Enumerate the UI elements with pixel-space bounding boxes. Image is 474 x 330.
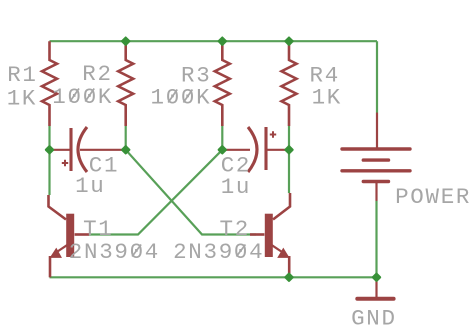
svg-text:1u: 1u [75, 173, 105, 199]
wire: R1 bottom to C1 left node [48, 126, 50, 150]
junction at battery/GND on ground rail [373, 274, 380, 281]
wire: battery top vertical [376, 41, 378, 113]
junction at C2 right node [285, 146, 292, 153]
svg-text:1u: 1u [221, 174, 251, 200]
junction at R3 top [219, 38, 226, 45]
svg-text:2N3904: 2N3904 [173, 239, 264, 265]
svg-text:POWER: POWER [395, 184, 471, 210]
svg-text:GND: GND [351, 305, 397, 330]
slashed-zero strokes for 100K of R3 [168, 90, 192, 103]
resistor R4 [282, 41, 297, 126]
junction at T2 emitter on ground rail [285, 274, 292, 281]
wire: bottom ground rail [50, 276, 377, 278]
transistor T1 [49, 195, 90, 277]
wire: R3 bottom to C2 left node [221, 126, 223, 150]
junction at R4 top [285, 38, 292, 45]
svg-text:R1: R1 [7, 62, 37, 88]
resistor R1 [42, 41, 57, 126]
ground symbol GND [357, 277, 393, 299]
svg-text:R2: R2 [82, 61, 112, 87]
svg-text:100K: 100K [151, 85, 212, 111]
slashed-zero strokes for 100K of R2 [70, 89, 94, 102]
wire: C2 right node down to T2 collector [288, 150, 290, 193]
svg-text:100K: 100K [52, 84, 113, 110]
wire: top power rail [50, 40, 378, 42]
junction at C2 left node [219, 146, 226, 153]
resistor R2 [118, 41, 133, 126]
wire: battery bottom to ground rail [375, 200, 377, 277]
capacitor C1 [50, 127, 126, 172]
junction at C1 left node [46, 146, 53, 153]
wire: cross-coupling C1 right node to T2 base [126, 150, 256, 235]
slashed-zero stroke for 2N3904 of T1 [132, 245, 141, 257]
svg-text:1K: 1K [7, 85, 37, 111]
wire: cross-coupling C2 left node to T1 base [89, 150, 222, 235]
junction at R2 top [122, 38, 129, 45]
resistor R3 [215, 41, 230, 126]
wire: R2 bottom to C1 right node [125, 126, 127, 150]
capacitor C2 [222, 127, 289, 172]
battery POWER [342, 114, 410, 201]
wire: R4 bottom to C2 right node [288, 126, 290, 150]
junction at C1 right node [122, 146, 129, 153]
svg-text:1K: 1K [312, 84, 342, 110]
slashed-zero stroke for 2N3904 of T2 [236, 245, 245, 257]
wire: C1 left node down to T1 collector [48, 150, 50, 195]
transistor T2 [250, 193, 290, 277]
svg-text:2N3904: 2N3904 [69, 239, 160, 265]
